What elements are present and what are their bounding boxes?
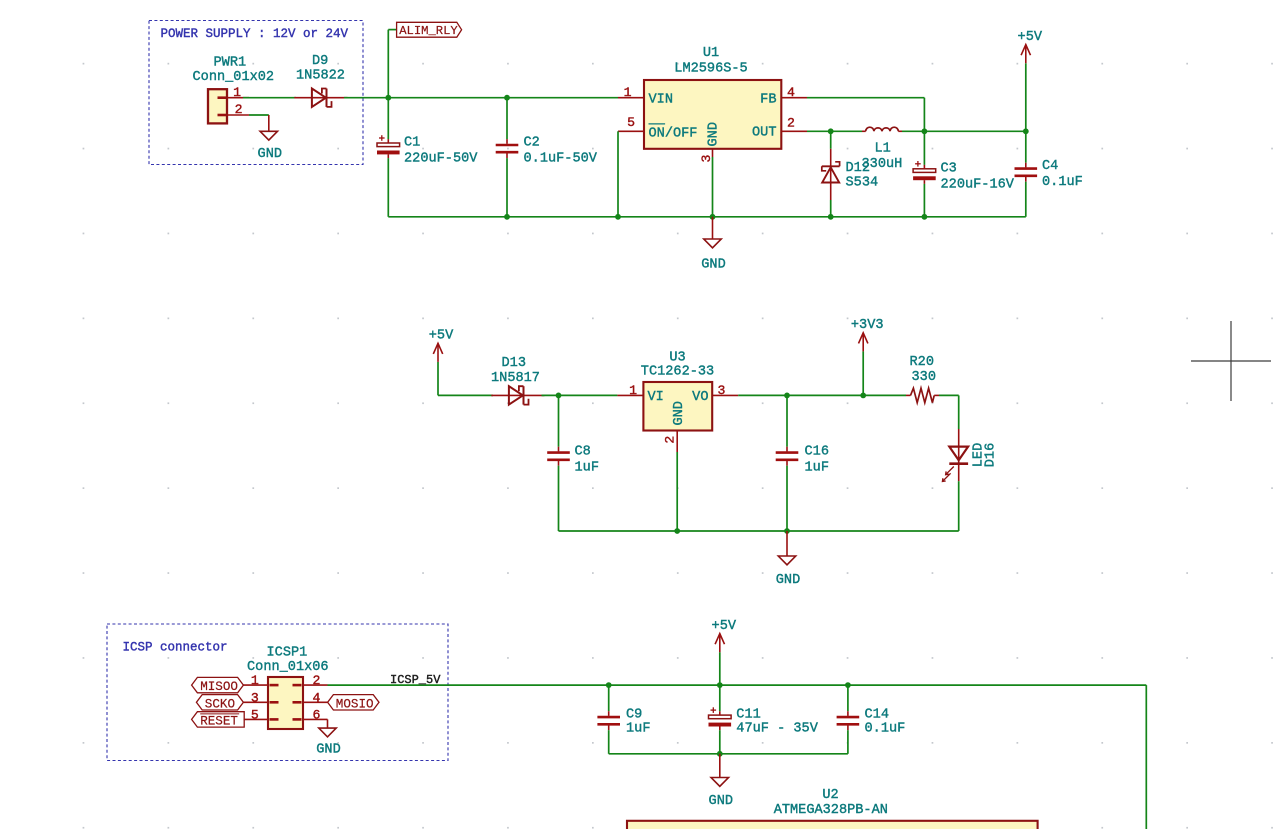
svg-text:U2: U2 [822, 788, 838, 803]
svg-text:1: 1 [251, 673, 259, 688]
svg-text:GND: GND [707, 122, 722, 146]
svg-text:LM2596S-5: LM2596S-5 [674, 62, 747, 77]
svg-text:+5V: +5V [712, 619, 737, 634]
svg-text:1uF: 1uF [805, 461, 829, 476]
svg-text:330: 330 [912, 370, 936, 385]
svg-text:TC1262-33: TC1262-33 [641, 365, 714, 380]
svg-text:5: 5 [251, 708, 259, 723]
svg-text:OUT: OUT [752, 126, 776, 141]
svg-text:C3: C3 [941, 161, 957, 176]
svg-text:SCKO: SCKO [205, 697, 235, 711]
svg-text:1uF: 1uF [575, 461, 599, 476]
svg-text:MISOO: MISOO [200, 680, 238, 694]
svg-text:2: 2 [787, 116, 795, 131]
svg-text:ICSP connector: ICSP connector [123, 640, 228, 654]
svg-text:3: 3 [251, 690, 259, 705]
svg-text:C8: C8 [575, 445, 591, 460]
svg-text:ATMEGA328PB-AN: ATMEGA328PB-AN [774, 803, 888, 818]
svg-text:+5V: +5V [1018, 30, 1043, 45]
svg-text:VO: VO [692, 390, 708, 405]
svg-text:C16: C16 [805, 445, 829, 460]
svg-text:1: 1 [624, 85, 632, 100]
svg-text:C9: C9 [626, 708, 642, 723]
svg-text:GND: GND [709, 794, 733, 809]
svg-text:C14: C14 [865, 708, 889, 723]
svg-text:D13: D13 [502, 356, 526, 371]
svg-text:47uF - 35V: 47uF - 35V [736, 722, 818, 737]
svg-text:220uF-50V: 220uF-50V [404, 152, 478, 167]
svg-text:VI: VI [648, 390, 664, 405]
svg-text:+3V3: +3V3 [851, 318, 884, 333]
svg-text:D9: D9 [312, 54, 328, 69]
svg-text:RESET: RESET [200, 715, 238, 729]
svg-text:+5V: +5V [429, 329, 454, 344]
svg-text:ALIM_RLY: ALIM_RLY [399, 24, 458, 38]
svg-text:U3: U3 [669, 350, 685, 365]
svg-text:ICSP_5V: ICSP_5V [390, 673, 441, 687]
svg-text:GND: GND [776, 573, 800, 588]
svg-text:ICSP1: ICSP1 [267, 645, 308, 660]
svg-text:2: 2 [663, 436, 678, 444]
svg-text:VIN: VIN [649, 93, 673, 108]
svg-text:GND: GND [672, 401, 687, 425]
svg-text:0.1uF-50V: 0.1uF-50V [524, 152, 598, 167]
svg-text:1: 1 [629, 383, 637, 398]
svg-text:1N5822: 1N5822 [296, 69, 345, 84]
svg-text:U1: U1 [703, 46, 719, 61]
svg-text:C11: C11 [736, 708, 760, 723]
svg-text:1: 1 [233, 85, 241, 100]
svg-text:L1: L1 [875, 142, 891, 157]
svg-text:4: 4 [313, 690, 321, 705]
svg-text:R20: R20 [910, 355, 934, 370]
svg-text:FB: FB [760, 93, 776, 108]
svg-text:C1: C1 [404, 136, 420, 151]
svg-text:2: 2 [235, 102, 243, 117]
svg-text:5: 5 [627, 115, 635, 130]
svg-text:MOSIO: MOSIO [336, 697, 374, 711]
svg-text:ON/OFF: ON/OFF [649, 126, 698, 141]
svg-text:Conn_01x02: Conn_01x02 [193, 70, 275, 85]
svg-text:GND: GND [258, 147, 282, 162]
svg-text:C2: C2 [524, 136, 540, 151]
svg-text:PWR1: PWR1 [214, 55, 247, 70]
svg-text:330uH: 330uH [862, 157, 903, 172]
svg-text:S534: S534 [846, 175, 879, 190]
svg-text:1N5817: 1N5817 [491, 371, 540, 386]
svg-text:220uF-16V: 220uF-16V [941, 177, 1015, 192]
svg-text:GND: GND [316, 743, 340, 758]
svg-text:6: 6 [313, 708, 321, 723]
svg-text:0.1uF: 0.1uF [865, 722, 906, 737]
svg-text:0.1uF: 0.1uF [1042, 175, 1083, 190]
svg-text:1uF: 1uF [626, 722, 650, 737]
svg-text:2: 2 [313, 673, 321, 688]
svg-text:GND: GND [701, 257, 725, 272]
svg-text:C4: C4 [1042, 159, 1058, 174]
svg-text:POWER SUPPLY : 12V or 24V: POWER SUPPLY : 12V or 24V [161, 27, 349, 41]
svg-text:D16: D16 [984, 443, 999, 467]
